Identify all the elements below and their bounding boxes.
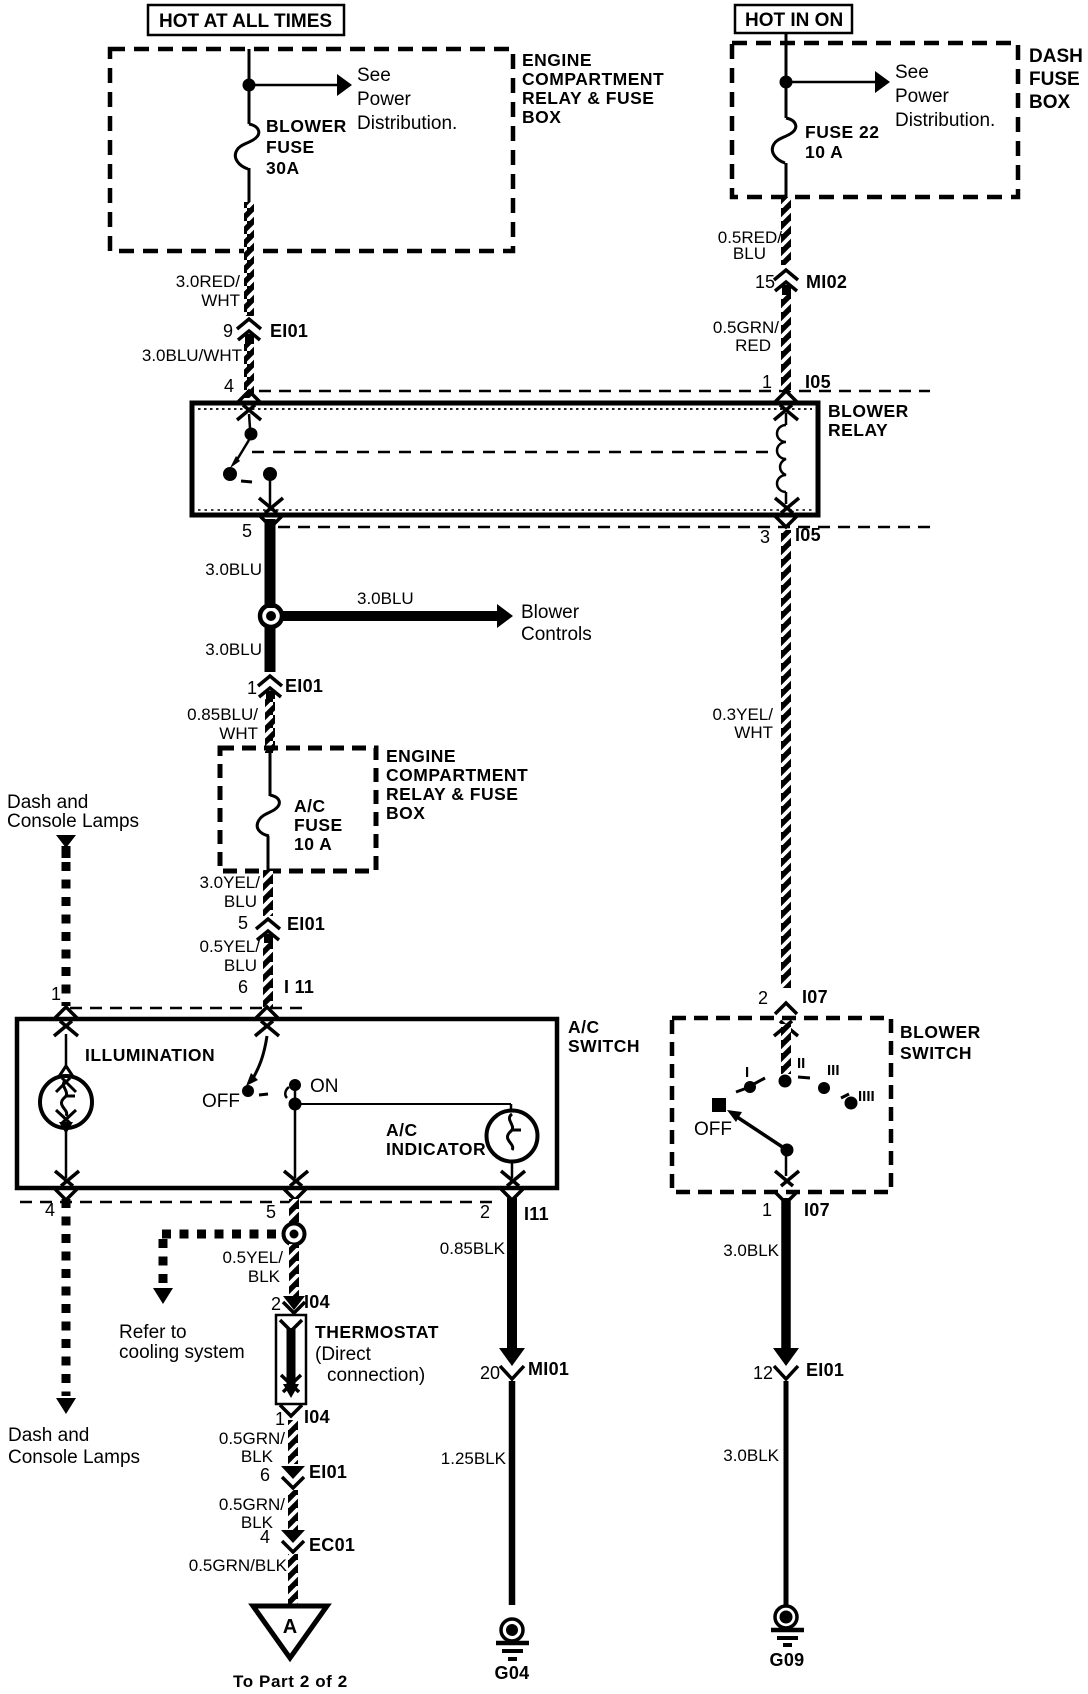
wire dashed to cooling system bbox=[119, 1234, 284, 1363]
svg-text:20: 20 bbox=[480, 1363, 500, 1383]
node A (to part 2 of 2) bbox=[233, 1606, 348, 1691]
svg-text:I07: I07 bbox=[804, 1200, 830, 1220]
pin 3 terminal at relay bottom bbox=[760, 498, 821, 547]
connector EC01 pin 4 bbox=[260, 1527, 355, 1555]
wire hatched from pin 5 bbox=[289, 1199, 299, 1225]
pin 5 terminal at A/C switch bottom bbox=[266, 1171, 308, 1222]
svg-text:SWITCH: SWITCH bbox=[900, 1043, 972, 1063]
wire dashed mechanical link bbox=[252, 451, 770, 454]
svg-text:WHT: WHT bbox=[734, 723, 773, 742]
wire dashed to dash and console lamps (top) bbox=[62, 862, 71, 1006]
node blower switch position I bbox=[736, 1064, 765, 1093]
svg-text:4: 4 bbox=[224, 376, 234, 396]
wire hatched 0.85BLU/WHT bbox=[265, 699, 275, 753]
svg-text:3.0RED/: 3.0RED/ bbox=[176, 272, 241, 291]
svg-text:I04: I04 bbox=[304, 1292, 330, 1312]
svg-text:HOT AT ALL TIMES: HOT AT ALL TIMES bbox=[159, 11, 332, 32]
svg-text:FUSE: FUSE bbox=[266, 137, 315, 157]
fuse A/C FUSE 10 A bbox=[257, 795, 343, 854]
wire into A/C fuse bbox=[269, 750, 272, 796]
wire hatched inside blower switch bbox=[781, 1024, 791, 1074]
wire from box top to blower fuse bbox=[248, 49, 251, 124]
node junction ring to cooling system bbox=[284, 1224, 305, 1245]
wire below fuse bbox=[248, 168, 251, 203]
svg-text:I: I bbox=[745, 1064, 749, 1081]
engine compartment relay &amp; fuse box (dashed) bbox=[110, 49, 664, 251]
svg-text:I 11: I 11 bbox=[284, 977, 314, 997]
wire hatched 3.0RED/WHT bbox=[244, 202, 254, 316]
svg-text:SWITCH: SWITCH bbox=[568, 1036, 640, 1056]
wire hatched 0.5RED/BLU bbox=[781, 197, 791, 265]
svg-text:A/C: A/C bbox=[386, 1120, 418, 1140]
svg-text:WHT: WHT bbox=[201, 291, 240, 310]
svg-text:5: 5 bbox=[238, 913, 248, 933]
wire dashed connector line I05 (below relay) bbox=[278, 526, 930, 529]
wire 3.0BLU relay pin5 to junction bbox=[265, 519, 276, 608]
svg-text:cooling system: cooling system bbox=[119, 1342, 245, 1363]
wire dashed connector line I05 (top of relay) bbox=[259, 390, 930, 393]
svg-text:Power: Power bbox=[895, 86, 950, 107]
pin 2 terminal at A/C switch bottom bbox=[480, 1171, 549, 1224]
svg-text:BOX: BOX bbox=[386, 803, 425, 823]
wire dashed connector line below A/C switch bbox=[20, 1201, 500, 1204]
connector MI02 pin 15 bbox=[755, 270, 847, 295]
svg-text:0.5GRN/BLK: 0.5GRN/BLK bbox=[189, 1556, 288, 1575]
lamp ILLUMINATION bbox=[40, 1034, 215, 1178]
wire 3.0BLU arrow to blower controls bbox=[280, 589, 592, 645]
ground G09 bbox=[770, 1606, 805, 1670]
svg-text:0.5GRN/: 0.5GRN/ bbox=[219, 1495, 285, 1514]
wire 0.85BLK pin2 to MI01 bbox=[507, 1198, 517, 1352]
blower switch box (dashed) bbox=[672, 1018, 981, 1192]
connector EI01 pin 9 bbox=[223, 319, 308, 344]
svg-text:G09: G09 bbox=[770, 1650, 805, 1670]
ground G04 bbox=[495, 1619, 530, 1683]
engine compartment relay &amp; fuse box 2 (dashed) bbox=[220, 746, 528, 871]
svg-text:BLOWER: BLOWER bbox=[900, 1022, 981, 1042]
svg-text:0.5GRN/: 0.5GRN/ bbox=[713, 318, 779, 337]
svg-text:0.3YEL/: 0.3YEL/ bbox=[713, 705, 774, 724]
svg-text:ENGINE: ENGINE bbox=[386, 746, 456, 766]
svg-text:1: 1 bbox=[51, 984, 61, 1004]
node Dash and Console Lamps (bottom) bbox=[8, 1398, 140, 1468]
svg-text:0.5YEL/: 0.5YEL/ bbox=[200, 937, 261, 956]
svg-text:0.85BLU/: 0.85BLU/ bbox=[187, 705, 258, 724]
svg-text:9: 9 bbox=[223, 321, 233, 341]
dash fuse box (dashed) bbox=[732, 43, 1083, 197]
svg-text:3: 3 bbox=[760, 527, 770, 547]
svg-text:Dash and: Dash and bbox=[8, 1425, 89, 1446]
svg-text:I07: I07 bbox=[802, 987, 828, 1007]
wire to power distribution arrow (right) bbox=[786, 62, 995, 131]
relay coil bbox=[777, 413, 786, 504]
svg-text:III: III bbox=[827, 1062, 840, 1079]
svg-text:G04: G04 bbox=[495, 1663, 530, 1683]
svg-text:WHT: WHT bbox=[219, 724, 258, 743]
svg-text:3.0BLK: 3.0BLK bbox=[723, 1241, 779, 1260]
svg-text:Distribution.: Distribution. bbox=[357, 113, 457, 134]
pin 2 terminal at blower switch top bbox=[774, 1003, 798, 1036]
svg-text:THERMOSTAT: THERMOSTAT bbox=[315, 1322, 439, 1342]
svg-text:ENGINE: ENGINE bbox=[522, 50, 592, 70]
svg-text:Console Lamps: Console Lamps bbox=[8, 1447, 140, 1468]
svg-text:BOX: BOX bbox=[1029, 92, 1071, 113]
svg-text:See: See bbox=[895, 62, 929, 83]
svg-text:FUSE: FUSE bbox=[1029, 69, 1080, 90]
pin 6 terminal at A/C switch top bbox=[255, 1007, 279, 1036]
svg-text:1: 1 bbox=[247, 678, 257, 698]
wire 3.0BLU junction to EI01 bbox=[265, 625, 276, 672]
svg-text:RELAY & FUSE: RELAY & FUSE bbox=[522, 88, 654, 108]
svg-text:OFF: OFF bbox=[694, 1119, 732, 1140]
node blower switch position III bbox=[798, 1062, 840, 1094]
node junction dot (battery feed) bbox=[243, 79, 256, 92]
node junction dot (ignition feed) bbox=[780, 76, 793, 89]
connector MI01 pin 20 bbox=[480, 1348, 569, 1383]
svg-text:5: 5 bbox=[266, 1202, 276, 1222]
svg-text:3.0BLU: 3.0BLU bbox=[205, 640, 262, 659]
node junction ring to blower controls bbox=[260, 605, 282, 627]
svg-text:FUSE 22: FUSE 22 bbox=[805, 122, 880, 142]
svg-text:I11: I11 bbox=[524, 1204, 549, 1224]
svg-text:IIII: IIII bbox=[858, 1088, 875, 1105]
node HOT AT ALL TIMES bbox=[148, 5, 344, 35]
wire hatched 3.0BLU/WHT bbox=[244, 344, 254, 398]
svg-text:10 A: 10 A bbox=[805, 142, 843, 162]
svg-text:3.0BLU: 3.0BLU bbox=[357, 589, 414, 608]
svg-text:EI01: EI01 bbox=[806, 1360, 844, 1380]
svg-text:6: 6 bbox=[238, 977, 248, 997]
svg-text:BLOWER: BLOWER bbox=[828, 401, 909, 421]
svg-text:RELAY & FUSE: RELAY & FUSE bbox=[386, 784, 518, 804]
svg-text:0.85BLK: 0.85BLK bbox=[440, 1239, 506, 1258]
svg-text:To Part 2 of 2: To Part 2 of 2 bbox=[233, 1672, 348, 1691]
svg-text:BLU: BLU bbox=[224, 956, 257, 975]
pin 1 terminal at A/C switch top bbox=[54, 1007, 78, 1036]
connector thermostat pin 2 I04 bbox=[271, 1292, 330, 1314]
pin 1 terminal at blower switch bottom bbox=[762, 1171, 830, 1220]
svg-text:COMPARTMENT: COMPARTMENT bbox=[386, 765, 528, 785]
svg-text:OFF: OFF bbox=[202, 1091, 240, 1112]
wire hatched 0.5YEL/BLK bbox=[289, 1244, 299, 1296]
wire below A/C fuse bbox=[267, 836, 270, 872]
connector thermostat pin 1 I04 bbox=[275, 1405, 330, 1429]
wire to A/C indicator bbox=[295, 1104, 511, 1112]
connector EI01 pin 5 bbox=[238, 913, 325, 944]
svg-text:II: II bbox=[797, 1055, 805, 1072]
blower relay box bbox=[192, 401, 909, 515]
svg-text:0.5YEL/: 0.5YEL/ bbox=[223, 1248, 284, 1267]
svg-text:EI01: EI01 bbox=[309, 1462, 347, 1482]
switch lever OFF position bbox=[202, 1036, 289, 1112]
svg-text:10 A: 10 A bbox=[294, 834, 332, 854]
svg-text:2: 2 bbox=[480, 1202, 490, 1222]
pin 4 terminal at A/C switch bottom bbox=[45, 1171, 79, 1220]
svg-text:6: 6 bbox=[260, 1465, 270, 1485]
node blower switch position IIII bbox=[841, 1088, 875, 1110]
wire 3.0BLK to ground bbox=[784, 1381, 789, 1606]
wire hatched 0.5GRN/RED bbox=[781, 295, 791, 391]
svg-text:(Direct: (Direct bbox=[315, 1344, 372, 1365]
wire dashed connector line I11 (top of A/C switch) bbox=[70, 1007, 308, 1010]
svg-text:connection): connection) bbox=[327, 1365, 425, 1386]
svg-text:Refer to: Refer to bbox=[119, 1322, 187, 1343]
svg-text:COMPARTMENT: COMPARTMENT bbox=[522, 69, 664, 89]
relay switch contact bbox=[223, 414, 277, 506]
node HOT IN ON bbox=[735, 5, 852, 33]
pin 5 terminal at relay bottom bbox=[242, 498, 283, 541]
svg-text:3.0BLK: 3.0BLK bbox=[723, 1446, 779, 1465]
wire hatched 0.5GRN/BLK 2 bbox=[288, 1490, 298, 1530]
lamp A/C INDICATOR bbox=[386, 1111, 538, 1179]
svg-text:Power: Power bbox=[357, 89, 412, 110]
wire hatched 0.5YEL/BLU bbox=[263, 943, 273, 1007]
svg-text:RED: RED bbox=[735, 336, 771, 355]
node ON contact bbox=[289, 1076, 339, 1178]
svg-text:2: 2 bbox=[271, 1294, 281, 1314]
wire below fuse 22 bbox=[785, 163, 788, 198]
wire hatched 0.5GRN/BLK bbox=[288, 1420, 298, 1464]
svg-text:5: 5 bbox=[242, 521, 252, 541]
svg-text:A: A bbox=[283, 1616, 297, 1638]
svg-text:1: 1 bbox=[762, 372, 772, 392]
svg-text:A/C: A/C bbox=[568, 1017, 600, 1037]
node Dash and Console Lamps (top) bbox=[7, 792, 139, 858]
svg-text:3.0BLU/WHT: 3.0BLU/WHT bbox=[142, 346, 242, 365]
connector EI01 pin 6 bbox=[260, 1462, 347, 1488]
fuse FUSE 22 10 A bbox=[772, 118, 879, 163]
wire 3.0BLK to EI01 bbox=[781, 1198, 791, 1352]
svg-text:EI01: EI01 bbox=[287, 914, 325, 934]
svg-text:4: 4 bbox=[260, 1527, 270, 1547]
svg-text:Console Lamps: Console Lamps bbox=[7, 811, 139, 832]
blower switch lever bbox=[727, 1110, 794, 1176]
svg-text:EC01: EC01 bbox=[309, 1535, 355, 1555]
svg-text:BLK: BLK bbox=[248, 1267, 281, 1286]
wire dashed to dash and console lamps (bottom) bbox=[62, 1199, 71, 1396]
thermostat (direct connection) bbox=[276, 1315, 439, 1404]
wire 1.25BLK bbox=[509, 1381, 516, 1605]
fuse BLOWER FUSE 30A bbox=[235, 116, 346, 178]
svg-text:Controls: Controls bbox=[521, 624, 592, 645]
node blower switch position II (common) bbox=[779, 1055, 806, 1088]
svg-text:RELAY: RELAY bbox=[828, 420, 888, 440]
svg-text:INDICATOR: INDICATOR bbox=[386, 1139, 486, 1159]
wire from HOT IN ON to fuse 22 bbox=[785, 33, 788, 118]
connector EI01 pin 12 bbox=[753, 1348, 844, 1383]
svg-text:2: 2 bbox=[758, 988, 768, 1008]
svg-text:ILLUMINATION: ILLUMINATION bbox=[85, 1045, 215, 1065]
node blower switch OFF contact bbox=[694, 1098, 732, 1140]
svg-text:1: 1 bbox=[275, 1409, 285, 1429]
svg-text:ON: ON bbox=[310, 1076, 339, 1097]
connector EI01 pin 1 bbox=[247, 676, 323, 701]
svg-text:BLOWER: BLOWER bbox=[266, 116, 347, 136]
wire hatched 0.3YEL/WHT (long run) bbox=[781, 530, 791, 988]
svg-text:12: 12 bbox=[753, 1363, 773, 1383]
pin 4 terminal at relay top bbox=[237, 391, 261, 420]
A/C switch box bbox=[17, 1017, 640, 1188]
svg-text:MI02: MI02 bbox=[806, 272, 847, 292]
svg-text:BOX: BOX bbox=[522, 107, 561, 127]
svg-text:DASH: DASH bbox=[1029, 46, 1083, 67]
svg-text:Distribution.: Distribution. bbox=[895, 110, 995, 131]
svg-text:1: 1 bbox=[762, 1200, 772, 1220]
svg-text:I04: I04 bbox=[304, 1407, 330, 1427]
svg-text:BLU: BLU bbox=[224, 892, 257, 911]
pin 1 terminal at relay top bbox=[774, 391, 798, 420]
wire hatched 0.5GRN/BLK 3 bbox=[288, 1554, 298, 1606]
svg-text:BLK: BLK bbox=[241, 1447, 274, 1466]
svg-text:3.0YEL/: 3.0YEL/ bbox=[200, 873, 261, 892]
svg-text:EI01: EI01 bbox=[270, 321, 308, 341]
svg-text:1.25BLK: 1.25BLK bbox=[441, 1449, 507, 1468]
svg-text:15: 15 bbox=[755, 272, 775, 292]
svg-text:Dash and: Dash and bbox=[7, 792, 88, 813]
svg-text:FUSE: FUSE bbox=[294, 815, 343, 835]
svg-text:EI01: EI01 bbox=[285, 676, 323, 696]
wire to power distribution arrow bbox=[249, 65, 457, 134]
svg-text:HOT IN ON: HOT IN ON bbox=[745, 10, 843, 31]
svg-text:Blower: Blower bbox=[521, 602, 580, 623]
svg-text:BLU: BLU bbox=[733, 244, 766, 263]
svg-text:3.0BLU: 3.0BLU bbox=[205, 560, 262, 579]
svg-text:0.5GRN/: 0.5GRN/ bbox=[219, 1429, 285, 1448]
wire hatched 3.0YEL/BLU bbox=[263, 870, 273, 916]
svg-text:MI01: MI01 bbox=[528, 1359, 569, 1379]
svg-text:A/C: A/C bbox=[294, 796, 326, 816]
svg-text:See: See bbox=[357, 65, 391, 86]
svg-text:30A: 30A bbox=[266, 158, 300, 178]
svg-text:I05: I05 bbox=[805, 372, 831, 392]
